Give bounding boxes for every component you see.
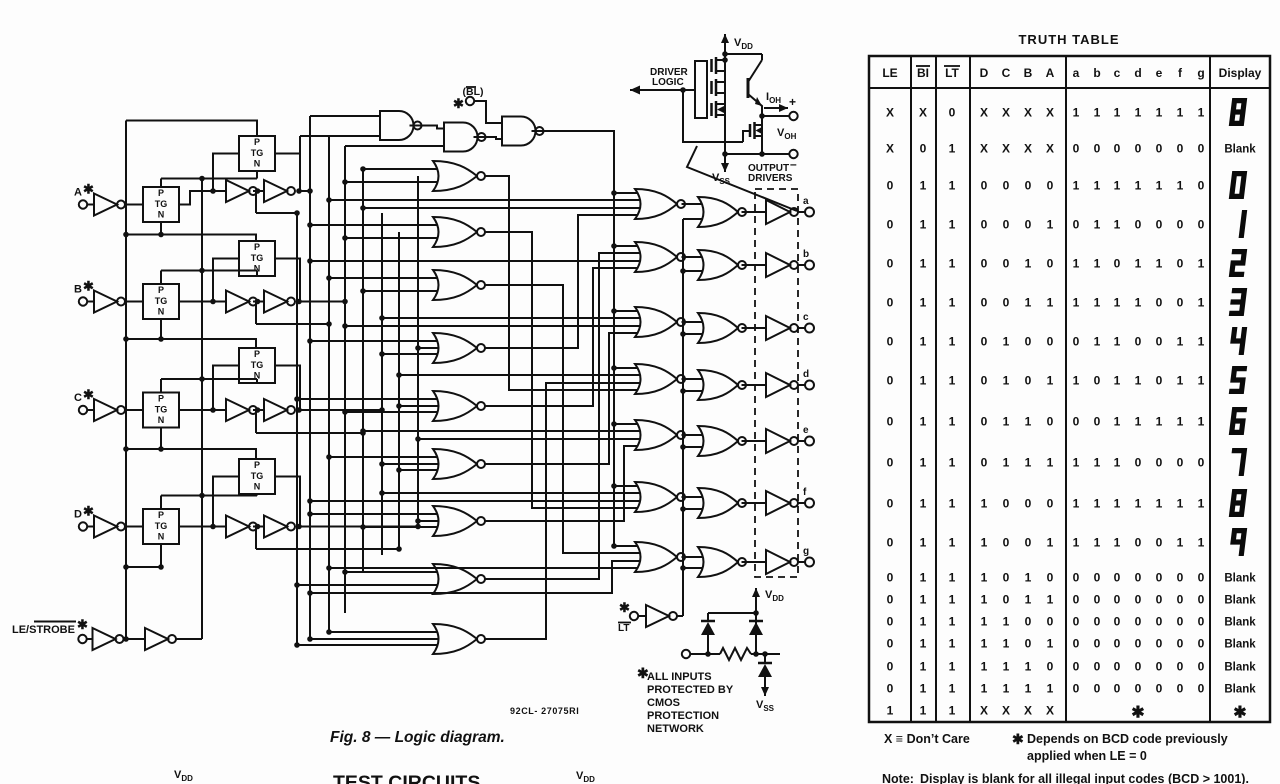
truth table row 11 display (1229, 489, 1247, 517)
svg-text:0: 0 (887, 257, 894, 271)
svg-text:0: 0 (1198, 660, 1205, 674)
wire matrix bus x297 (296, 213, 298, 645)
wire NOR2-d blanking input (614, 367, 642, 369)
svg-text:0: 0 (1156, 456, 1163, 470)
svg-text:TG: TG (155, 405, 168, 415)
svg-text:1: 1 (920, 456, 927, 470)
wire latch-enable bus vertical (125, 121, 127, 640)
svg-text:0: 0 (1135, 637, 1142, 651)
resistor protection (720, 648, 751, 660)
svg-text:1: 1 (920, 497, 927, 511)
wire NOR3-f to driver (742, 502, 767, 504)
wire TG feedback D right terminal (275, 477, 300, 527)
svg-text:1: 1 (1177, 536, 1184, 550)
inverter latch B first (226, 291, 249, 313)
svg-text:LOGIC: LOGIC (652, 77, 684, 88)
svg-text:P: P (158, 188, 164, 198)
svg-text:1: 1 (1047, 218, 1054, 232)
svg-text:1: 1 (1003, 660, 1010, 674)
svg-text:X: X (1024, 106, 1032, 120)
svg-text:0: 0 (1177, 637, 1184, 651)
svg-text:P: P (158, 510, 164, 520)
svg-text:TG: TG (155, 296, 168, 306)
svg-text:0: 0 (981, 415, 988, 429)
svg-text:Blank: Blank (1224, 684, 1256, 696)
svg-text:X: X (1046, 142, 1054, 156)
node latch D H2 on bus (396, 546, 402, 552)
svg-text:0: 0 (1156, 218, 1163, 232)
svg-text:0: 0 (1073, 335, 1080, 349)
svg-text:0: 0 (1114, 142, 1121, 156)
node latch D storage (210, 524, 216, 530)
wire NOR1-7 input a (310, 513, 441, 515)
svg-text:1: 1 (1094, 536, 1101, 550)
svg-text:0: 0 (1003, 571, 1010, 585)
svg-text:1: 1 (920, 615, 927, 629)
svg-text:1: 1 (1177, 415, 1184, 429)
wire latch A N-clock to next TG feedback (161, 235, 256, 242)
svg-text:1: 1 (1025, 593, 1032, 607)
wire input C to inverter (87, 409, 94, 411)
svg-text:1: 1 (1025, 257, 1032, 271)
svg-text:1: 1 (1003, 637, 1010, 651)
truth table row 5 display (1229, 249, 1247, 277)
svg-text:✱: ✱ (453, 96, 464, 111)
svg-text:0: 0 (1156, 593, 1163, 607)
wire NOR1-9 input b (297, 644, 441, 646)
svg-text:0: 0 (1177, 142, 1184, 156)
svg-text:0: 0 (1198, 456, 1205, 470)
svg-text:PROTECTION: PROTECTION (647, 710, 719, 722)
node latch D P-clock on bus (199, 493, 205, 499)
svg-text:1: 1 (949, 142, 956, 156)
svg-text:1: 1 (1094, 296, 1101, 310)
svg-text:0: 0 (1114, 682, 1121, 696)
wire latch C TG2 N terminal (256, 379, 258, 383)
svg-text:0: 0 (887, 536, 894, 550)
wire VSS rail (725, 153, 762, 155)
truth table row 1 display (1229, 98, 1247, 126)
wire top feedback line to latch A TG2 (126, 121, 257, 137)
wire NAND1 to NAND2 (410, 126, 445, 129)
svg-text:1: 1 (1114, 536, 1121, 550)
svg-text:0: 0 (1094, 660, 1101, 674)
inverter latch D second (264, 516, 287, 538)
svg-text:0: 0 (981, 456, 988, 470)
svg-text:B: B (74, 284, 82, 296)
node protection mid (753, 651, 759, 657)
svg-text:0: 0 (887, 660, 894, 674)
wire NOR3-b to driver (742, 264, 767, 266)
wire NOR3-d to driver (742, 384, 767, 386)
inverter LT (646, 605, 669, 627)
svg-text:1: 1 (1025, 660, 1032, 674)
svg-text:P: P (254, 460, 260, 470)
svg-text:Depends on BCD code previously: Depends on BCD code previously (1027, 732, 1228, 746)
svg-text:0: 0 (1198, 179, 1205, 193)
truth table column separator x1066 (1065, 56, 1067, 722)
wire latch B output H2 to matrix (256, 323, 329, 325)
nor gate first-rank 2 (433, 217, 477, 247)
node latch D H1 on bus (415, 524, 421, 530)
svg-text:1: 1 (981, 637, 988, 651)
wire NOR2-b input from bus x310 (310, 260, 642, 262)
node latch B H2 on bus (326, 321, 332, 327)
transistor N1 (710, 103, 713, 116)
wire lamp-test input c (683, 333, 704, 335)
svg-text:0: 0 (887, 335, 894, 349)
svg-text:✱: ✱ (83, 279, 94, 294)
wire NOR2-c blanking input (614, 310, 642, 312)
svg-text:Display is blank for all illeg: Display is blank for all illegal input c… (920, 772, 1249, 784)
svg-text:1: 1 (1114, 296, 1121, 310)
truth table column separator x936 (935, 56, 937, 722)
svg-text:0: 0 (1198, 218, 1205, 232)
nor gate first-rank 6 (433, 449, 477, 479)
diode D3 protection (758, 664, 772, 677)
wire NOR1-6 input b (399, 469, 441, 471)
svg-text:0: 0 (1114, 571, 1121, 585)
svg-text:0: 0 (1094, 637, 1101, 651)
node latch C output (296, 407, 302, 413)
inverter D input buffer (94, 516, 117, 538)
wire NOR2-b output to NOR3 (682, 256, 705, 258)
svg-text:✱: ✱ (83, 504, 94, 519)
svg-text:0: 0 (1094, 682, 1101, 696)
output terminal b (805, 261, 814, 270)
truth table header separator (869, 87, 1270, 89)
svg-text:0: 0 (1073, 593, 1080, 607)
wire driver a to output (798, 211, 805, 213)
svg-text:1: 1 (1198, 415, 1205, 429)
nor gate first-rank 7 (433, 506, 477, 536)
svg-text:1: 1 (920, 374, 927, 388)
svg-text:0: 0 (1177, 593, 1184, 607)
svg-text:✱: ✱ (1131, 705, 1144, 722)
svg-text:1: 1 (920, 637, 927, 651)
wire NOR2-g output to NOR3 (682, 556, 705, 558)
wire NOR1-4 input a (310, 340, 441, 342)
wire latch B output H1 to matrix (300, 301, 345, 303)
svg-text:d: d (1134, 66, 1141, 80)
dashed box output drivers (755, 189, 798, 577)
transistor N2 (749, 124, 752, 137)
svg-text:1: 1 (949, 415, 956, 429)
wire TG feedback C right terminal (275, 366, 300, 411)
svg-text:1: 1 (1094, 218, 1101, 232)
transmission gate TG6 latch C feedback (239, 348, 275, 383)
svg-text:d: d (803, 369, 809, 380)
wire driver b to output (798, 264, 805, 266)
wire latch B N-clock to next TG feedback (161, 339, 256, 348)
wire latch D TG2 N terminal (256, 494, 258, 496)
nor gate second-rank f (635, 482, 677, 512)
wire lamp-test input f (683, 508, 704, 510)
inverter LE first (93, 628, 116, 650)
svg-text:0: 0 (1114, 257, 1121, 271)
svg-text:0: 0 (887, 571, 894, 585)
svg-text:1: 1 (1177, 335, 1184, 349)
svg-text:0: 0 (887, 593, 894, 607)
svg-text:1: 1 (1047, 374, 1054, 388)
svg-text:1: 1 (1025, 682, 1032, 696)
svg-text:✱: ✱ (1012, 731, 1024, 747)
wire latch C output H2 to matrix (256, 432, 363, 434)
svg-text:1: 1 (920, 218, 927, 232)
nor gate third-rank b (698, 250, 738, 280)
node latch A P-clock on bus (199, 176, 205, 182)
svg-text:1: 1 (1114, 335, 1121, 349)
wire matrix bus x310 (309, 116, 311, 639)
wire driver f to output (798, 502, 805, 504)
wire NOR1-4 input b (382, 353, 441, 355)
wire lamp-test corner into NOR3-a (683, 218, 704, 220)
input terminal D (79, 522, 87, 530)
svg-text:1: 1 (949, 682, 956, 696)
wire NOR1-1 input b (345, 181, 441, 183)
node latch A inter-inverter (255, 188, 261, 194)
node latch B P-clock on bus (199, 268, 205, 274)
svg-text:LT: LT (945, 66, 959, 80)
power VDD arrow driver circuit (724, 34, 726, 75)
svg-text:1: 1 (1094, 497, 1101, 511)
svg-text:e: e (803, 425, 809, 436)
wire latch B TG output to inverters (179, 301, 226, 303)
svg-text:BI: BI (917, 66, 929, 80)
node latch D output (296, 524, 302, 530)
wire NOR1-4 output to second rank (484, 215, 642, 348)
nor gate third-rank f (698, 488, 738, 518)
svg-text:0: 0 (1047, 179, 1054, 193)
wire between latch C inverters (253, 409, 264, 411)
svg-text:P: P (158, 394, 164, 404)
svg-text:1: 1 (1156, 497, 1163, 511)
node latch D N-clock on bus (123, 564, 129, 570)
svg-text:X: X (886, 142, 894, 156)
nor gate third-rank g (698, 547, 738, 577)
svg-text:1: 1 (1073, 456, 1080, 470)
inverter latch A second (264, 180, 287, 202)
svg-text:0: 0 (887, 637, 894, 651)
svg-text:X: X (1046, 106, 1054, 120)
svg-text:a: a (1073, 66, 1080, 80)
wire driver e to output (798, 440, 805, 442)
wire NOR1-8 input b (297, 584, 441, 586)
nor gate first-rank 9 (433, 624, 477, 654)
wire latch D N-clock line (126, 566, 161, 568)
wire driver vertical rail (724, 54, 726, 154)
svg-text:0: 0 (949, 106, 956, 120)
svg-text:g: g (1197, 66, 1204, 80)
wire latch-enable-bar bus vertical (201, 179, 203, 640)
svg-text:0: 0 (1135, 335, 1142, 349)
driver buffer b (766, 253, 790, 277)
svg-text:0: 0 (1094, 615, 1101, 629)
svg-text:Blank: Blank (1224, 617, 1256, 629)
svg-text:LE/STROBE: LE/STROBE (12, 624, 75, 636)
svg-text:0: 0 (1156, 571, 1163, 585)
wire NOR1-6 input c (382, 463, 443, 465)
svg-text:1: 1 (981, 536, 988, 550)
truth table column separator x1210 (1209, 56, 1211, 722)
nor gate third-rank e (698, 426, 738, 456)
wire LE second inverter output to bus (176, 638, 203, 640)
nand gate NAND1 (380, 111, 414, 140)
svg-text:P: P (158, 285, 164, 295)
wire inverter B to TG (125, 301, 144, 303)
svg-text:0: 0 (1177, 615, 1184, 629)
svg-text:1: 1 (1073, 374, 1080, 388)
svg-text:0: 0 (1047, 497, 1054, 511)
svg-text:0: 0 (1156, 335, 1163, 349)
output terminal a (805, 208, 814, 217)
svg-text:1: 1 (1177, 374, 1184, 388)
transistor Q1 bipolar (747, 78, 750, 98)
svg-text:applied when LE = 0: applied when LE = 0 (1027, 749, 1147, 763)
svg-text:X: X (1024, 704, 1032, 718)
svg-text:1: 1 (981, 497, 988, 511)
svg-text:NETWORK: NETWORK (647, 723, 704, 735)
svg-text:P: P (254, 349, 260, 359)
inverter latch C first (226, 399, 249, 421)
svg-text:1: 1 (1135, 497, 1142, 511)
wire NOR1-9 input c (310, 638, 443, 640)
svg-text:1: 1 (1135, 179, 1142, 193)
svg-text:0: 0 (1135, 660, 1142, 674)
svg-text:0: 0 (887, 497, 894, 511)
svg-text:X: X (919, 106, 927, 120)
input terminal A (79, 200, 87, 208)
svg-text:N: N (158, 532, 165, 542)
svg-text:1: 1 (949, 704, 956, 718)
wire input A to inverter (87, 204, 94, 206)
wire latch C TG1 N terminal (160, 428, 162, 450)
wire TG feedback C left terminal (213, 366, 239, 411)
wire matrix bus x329 (328, 136, 330, 633)
nor gate third-rank c (698, 313, 738, 343)
svg-text:0: 0 (1047, 660, 1054, 674)
nor gate second-rank b (635, 242, 677, 272)
svg-text:ALL INPUTS: ALL INPUTS (647, 671, 712, 683)
node driver input (680, 87, 686, 93)
wire NOR2-d output to NOR3 (682, 378, 705, 380)
svg-text:1: 1 (1114, 179, 1121, 193)
wire driver input left arrow (630, 89, 695, 91)
svg-text:0: 0 (1094, 415, 1101, 429)
wire latch A TG1 P terminal (160, 179, 162, 188)
svg-text:1: 1 (1177, 179, 1184, 193)
svg-text:a: a (803, 196, 809, 207)
svg-text:1: 1 (949, 536, 956, 550)
svg-text:1: 1 (1025, 415, 1032, 429)
svg-text:0: 0 (1156, 637, 1163, 651)
driver buffer c (766, 316, 790, 340)
svg-text:1: 1 (1114, 415, 1121, 429)
svg-text:✱: ✱ (77, 617, 88, 632)
svg-text:0: 0 (1003, 218, 1010, 232)
wire NOR1-1 output to second rank (484, 176, 642, 390)
svg-text:0: 0 (1135, 593, 1142, 607)
svg-text:1: 1 (949, 257, 956, 271)
svg-text:TEST CIRCUITS: TEST CIRCUITS (333, 772, 480, 784)
svg-text:c: c (1114, 66, 1121, 80)
wire protection top link (708, 612, 756, 614)
wire matrix bus x345 (344, 146, 346, 613)
svg-text:1: 1 (949, 497, 956, 511)
node latch B inter-inverter (255, 299, 261, 305)
svg-text:1: 1 (1094, 106, 1101, 120)
svg-text:0: 0 (981, 296, 988, 310)
nand gate NAND3 (502, 117, 536, 146)
inverter B input buffer (94, 291, 117, 313)
svg-text:N: N (254, 482, 261, 492)
truth table row 3 display (1229, 171, 1247, 199)
svg-text:1: 1 (1073, 536, 1080, 550)
svg-text:0: 0 (1135, 682, 1142, 696)
svg-text:X: X (1046, 704, 1054, 718)
svg-text:N: N (254, 159, 261, 169)
node latch A H1 on bus (307, 188, 313, 194)
svg-text:1: 1 (981, 571, 988, 585)
svg-text:1: 1 (1047, 536, 1054, 550)
svg-text:1: 1 (887, 704, 894, 718)
truth table row 9 display (1229, 407, 1247, 435)
wire LE inverter to second inverter (123, 638, 145, 640)
svg-text:1: 1 (1025, 571, 1032, 585)
svg-text:0: 0 (981, 218, 988, 232)
svg-text:b: b (1093, 66, 1100, 80)
nor gate second-rank e (635, 420, 677, 450)
svg-text:B: B (1024, 66, 1033, 80)
output terminal VOH (789, 150, 797, 158)
inverter LE second (145, 628, 168, 650)
svg-text:1: 1 (1177, 497, 1184, 511)
node latch A N-clock on bus (123, 232, 129, 238)
wire NOR2-c input from bus x382 (382, 317, 642, 319)
svg-text:0: 0 (1073, 218, 1080, 232)
svg-text:0: 0 (1073, 660, 1080, 674)
svg-text:0: 0 (1177, 571, 1184, 585)
svg-text:1: 1 (1025, 456, 1032, 470)
nor gate third-rank d (698, 370, 738, 400)
svg-text:1: 1 (981, 615, 988, 629)
wire latch B P-clock line (161, 270, 257, 272)
wire IOH arrow (764, 107, 788, 109)
wire lamp-test input e (683, 446, 704, 448)
inverter latch B second (264, 291, 287, 313)
gate electrode box (695, 61, 707, 118)
wire latch B complement output drop (255, 302, 257, 325)
wire callout diagonal to driver a (687, 146, 797, 211)
node latch A H2 on bus (294, 210, 300, 216)
svg-text:P: P (254, 242, 260, 252)
svg-text:1: 1 (1047, 296, 1054, 310)
svg-text:1: 1 (949, 335, 956, 349)
svg-text:0: 0 (1135, 218, 1142, 232)
inverter A input buffer (94, 194, 117, 216)
svg-text:TG: TG (251, 360, 264, 370)
svg-text:1: 1 (920, 571, 927, 585)
wire input D to inverter (87, 526, 94, 528)
wire TG feedback A left terminal (213, 154, 239, 192)
node protection input (705, 651, 711, 657)
wire NOR1-5 input b (345, 411, 441, 413)
svg-text:0: 0 (1114, 615, 1121, 629)
wire NOR1-3 input a (329, 277, 441, 279)
svg-text:1: 1 (949, 637, 956, 651)
wire inverter D to TG (125, 526, 144, 528)
svg-text:1: 1 (1094, 179, 1101, 193)
